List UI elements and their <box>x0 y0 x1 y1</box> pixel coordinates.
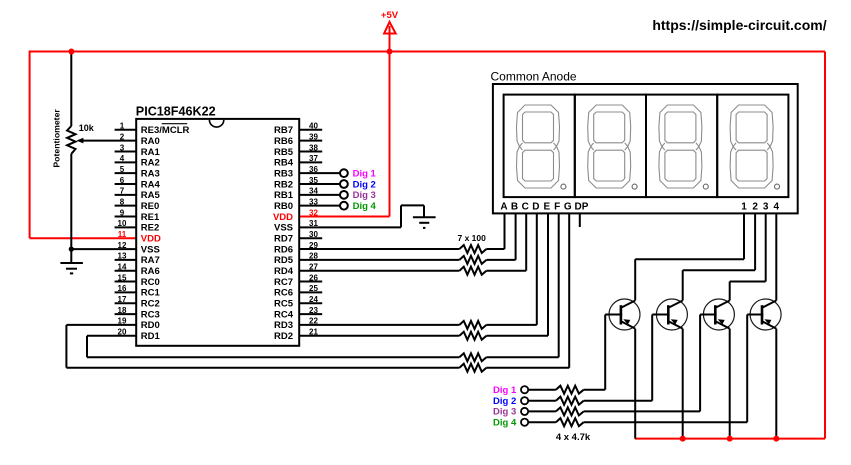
svg-text:RC1: RC1 <box>141 288 161 299</box>
svg-text:34: 34 <box>309 187 318 196</box>
svg-text:1: 1 <box>120 122 125 131</box>
svg-text:RB6: RB6 <box>274 136 293 147</box>
svg-text:33: 33 <box>309 197 318 206</box>
svg-text:RC4: RC4 <box>274 309 294 320</box>
svg-text:E: E <box>543 202 550 213</box>
svg-text:RA2: RA2 <box>141 158 160 169</box>
svg-text:Dig 1: Dig 1 <box>493 385 517 396</box>
svg-text:G: G <box>564 202 572 213</box>
svg-text:https://simple-circuit.com/: https://simple-circuit.com/ <box>652 17 826 33</box>
svg-text:16: 16 <box>118 284 127 293</box>
svg-text:C: C <box>522 202 529 213</box>
svg-text:7: 7 <box>120 187 125 196</box>
svg-text:36: 36 <box>309 165 318 174</box>
svg-text:35: 35 <box>309 176 318 185</box>
svg-text:RE2: RE2 <box>141 223 159 234</box>
svg-text:RA4: RA4 <box>141 179 161 190</box>
svg-text:RC7: RC7 <box>274 277 293 288</box>
svg-text:RD1: RD1 <box>141 331 161 342</box>
svg-text:40: 40 <box>309 122 318 131</box>
svg-text:3: 3 <box>120 143 125 152</box>
svg-text:RD3: RD3 <box>274 320 293 331</box>
svg-text:A: A <box>500 202 507 213</box>
svg-text:6: 6 <box>120 176 125 185</box>
svg-text:4: 4 <box>774 202 780 213</box>
svg-text:RC3: RC3 <box>141 309 160 320</box>
svg-text:RC2: RC2 <box>141 299 160 310</box>
svg-text:B: B <box>511 202 518 213</box>
svg-text:Potentiometer: Potentiometer <box>51 109 61 168</box>
svg-text:VSS: VSS <box>141 244 160 255</box>
svg-text:RA7: RA7 <box>141 255 160 266</box>
svg-text:14: 14 <box>118 263 127 272</box>
svg-text:39: 39 <box>309 132 318 141</box>
svg-text:RA3: RA3 <box>141 168 160 179</box>
svg-text:10k: 10k <box>79 123 95 133</box>
svg-text:Common Anode: Common Anode <box>491 70 577 84</box>
svg-text:11: 11 <box>118 230 127 239</box>
svg-text:18: 18 <box>118 306 127 315</box>
svg-text:25: 25 <box>309 284 318 293</box>
svg-text:RD2: RD2 <box>274 331 293 342</box>
svg-text:RD5: RD5 <box>274 255 294 266</box>
svg-text:Dig 1: Dig 1 <box>353 168 377 179</box>
svg-text:17: 17 <box>118 295 127 304</box>
svg-text:8: 8 <box>120 197 125 206</box>
svg-text:RB4: RB4 <box>274 158 294 169</box>
svg-text:Dig 3: Dig 3 <box>493 407 516 418</box>
svg-text:7 x 100: 7 x 100 <box>458 233 487 243</box>
svg-text:RE3/MCLR: RE3/MCLR <box>141 125 190 136</box>
svg-text:RD6: RD6 <box>274 244 293 255</box>
svg-text:+5V: +5V <box>381 10 399 21</box>
svg-text:38: 38 <box>309 143 318 152</box>
svg-text:RD7: RD7 <box>274 234 293 245</box>
svg-text:Dig 2: Dig 2 <box>493 396 516 407</box>
svg-text:RC0: RC0 <box>141 277 160 288</box>
svg-text:Dig 2: Dig 2 <box>353 179 376 190</box>
svg-text:1: 1 <box>741 202 747 213</box>
svg-text:Dig 4: Dig 4 <box>493 418 517 429</box>
svg-text:23: 23 <box>309 306 318 315</box>
svg-text:PIC18F46K22: PIC18F46K22 <box>136 104 216 118</box>
svg-text:10: 10 <box>118 219 127 228</box>
svg-text:5: 5 <box>120 165 125 174</box>
svg-text:RE1: RE1 <box>141 212 160 223</box>
svg-text:4: 4 <box>120 154 125 163</box>
svg-text:RB2: RB2 <box>274 179 293 190</box>
svg-text:RA5: RA5 <box>141 190 161 201</box>
svg-text:RB3: RB3 <box>274 168 293 179</box>
svg-text:RB5: RB5 <box>274 147 294 158</box>
svg-text:9: 9 <box>120 208 125 217</box>
svg-text:RB0: RB0 <box>274 201 293 212</box>
svg-text:32: 32 <box>309 208 318 217</box>
svg-text:13: 13 <box>118 252 127 261</box>
svg-text:15: 15 <box>118 273 127 282</box>
svg-text:RC6: RC6 <box>274 288 293 299</box>
svg-text:4 x 4.7k: 4 x 4.7k <box>556 432 591 443</box>
svg-text:RD4: RD4 <box>274 266 294 277</box>
svg-text:RD0: RD0 <box>141 320 160 331</box>
svg-text:VDD: VDD <box>141 234 161 245</box>
svg-text:RA0: RA0 <box>141 136 160 147</box>
svg-text:RB1: RB1 <box>274 190 294 201</box>
svg-text:3: 3 <box>763 202 769 213</box>
svg-text:30: 30 <box>309 230 318 239</box>
svg-text:DP: DP <box>575 202 589 213</box>
svg-text:Dig 4: Dig 4 <box>353 201 377 212</box>
svg-text:24: 24 <box>309 295 318 304</box>
svg-text:RC5: RC5 <box>274 299 294 310</box>
svg-text:Dig 3: Dig 3 <box>353 190 376 201</box>
svg-text:VDD: VDD <box>273 212 293 223</box>
svg-text:37: 37 <box>309 154 318 163</box>
svg-text:VSS: VSS <box>274 223 293 234</box>
svg-text:F: F <box>554 202 560 213</box>
svg-text:RA6: RA6 <box>141 266 160 277</box>
svg-text:RA1: RA1 <box>141 147 161 158</box>
svg-text:D: D <box>532 202 539 213</box>
svg-text:2: 2 <box>752 202 758 213</box>
svg-text:RB7: RB7 <box>274 125 293 136</box>
svg-text:RE0: RE0 <box>141 201 159 212</box>
svg-text:26: 26 <box>309 273 318 282</box>
